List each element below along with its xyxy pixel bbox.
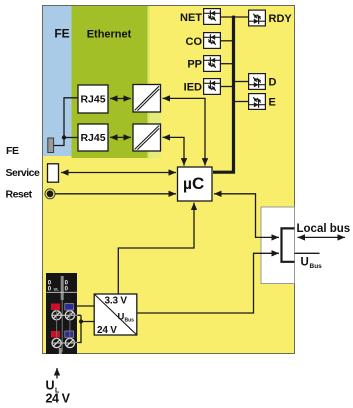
Service button [48,164,59,182]
svg-text:24 V: 24 V [46,392,71,406]
local bus connector bracket [282,228,295,261]
connector top labels [48,280,69,292]
terminal 2 blue [65,331,74,338]
microcontroller U1 [178,167,213,201]
supply arrow UL [56,368,58,379]
LED status bus (thick) [213,16,234,173]
svg-text:PP: PP [187,59,202,71]
svg-text:RDY: RDY [269,13,293,25]
RJ45 port 1 [78,85,108,113]
screw 1b [65,311,74,320]
block border redraw [43,6,295,354]
svg-text:E: E [269,97,276,109]
svg-text:FE: FE [54,26,69,40]
wire UBus supply to local bus interface [138,253,280,313]
connector jumper lines [57,310,70,339]
screw row links [53,315,75,343]
Reset button dot [47,190,54,197]
DC/DC converter [94,294,137,336]
LED NET [204,9,221,25]
wire IED LED to bus [221,86,233,88]
wire NET LED to RDY LED [221,16,248,18]
svg-text:Local bus: Local bus [297,223,351,235]
svg-text:FE: FE [6,145,19,157]
svg-text:RJ45: RJ45 [80,94,105,106]
wire 0V terminal to converter [78,315,95,342]
wire bus to E LED [234,101,248,103]
RJ45 port 2 [78,124,108,151]
device body yellow block [43,6,295,354]
svg-text:U: U [118,312,125,323]
wire Local bus external bidirectional [298,236,346,238]
junction 0V node [79,320,83,324]
svg-text:Bus: Bus [125,318,135,324]
svg-text:RJ45: RJ45 [80,132,105,144]
transformer T1 (isolation) [133,85,161,113]
wire RJ45-1 to T1 bidirectional [110,98,131,100]
svg-text:µ: µ [183,176,192,193]
svg-text:IED: IED [184,82,202,94]
terminal 2 red [51,331,60,338]
screw 2b [65,338,74,347]
power connector block (black) [46,273,77,354]
svg-text:Ethernet: Ethernet [87,29,132,41]
screw 1a [52,311,61,320]
terminal 1 red [51,304,60,311]
terminal link gray [70,315,78,342]
svg-text:U: U [301,257,309,269]
LED CO [204,33,221,49]
svg-text:CO: CO [186,36,203,48]
Ethernet zone (green) [72,6,148,159]
wire 3.3V supply to uC [118,203,194,294]
green edge fade [148,6,150,159]
svg-text:Reset: Reset [6,189,33,201]
wire shield branch to RJ45 port 2 [64,137,78,139]
LED PP [204,56,221,72]
FE shield zone (blue) [43,6,72,157]
terminal 1 blue [65,304,74,311]
connector bottom notch [59,348,62,354]
wire CO LED to bus [221,40,233,42]
svg-text:Service: Service [6,167,41,179]
screw 2a [52,338,61,347]
wire RJ45-2 to T2 bidirectional [110,136,131,138]
LED D [249,74,266,90]
wire 24V terminal to converter [74,305,95,307]
svg-text:NET: NET [180,12,202,24]
FE terminal rod [48,138,54,153]
wire Service to uC bidirectional [61,172,176,174]
connector divider line [61,300,63,352]
svg-text:3.3 V: 3.3 V [105,296,128,307]
pale zone behind transformers [148,84,161,158]
wire FE rod to RJ45 shields [54,98,78,146]
transformer T2 (isolation) [133,124,161,151]
svg-text:C: C [192,174,204,193]
wire bus to D LED [234,81,248,83]
wire PP LED to bus [221,63,233,65]
svg-text:UL: UL [54,287,60,291]
local bus interface box (white) [261,207,295,284]
wire T1 to uC [163,98,206,165]
svg-text:D: D [269,77,277,89]
wire uC to local bus interface bidirectional [214,194,279,238]
wire Reset to uC [55,193,176,195]
svg-text:U: U [46,379,55,393]
LED E [249,94,266,110]
wire UBus external [295,252,320,254]
svg-text:Bus: Bus [310,263,323,270]
LED IED [204,79,221,95]
connector separator line [47,291,78,293]
LED RDY [249,10,266,26]
wire T2 to uC [163,137,185,165]
junction shield node [62,135,66,139]
svg-text:24 V: 24 V [97,325,117,336]
connector divider bar [61,276,64,300]
